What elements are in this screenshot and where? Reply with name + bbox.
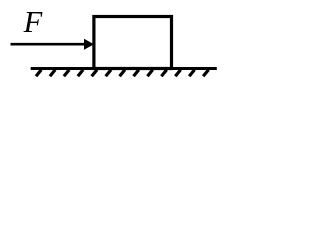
svg-text:F: F [23, 5, 43, 39]
ground [31, 67, 217, 70]
ground hatching [36, 70, 209, 77]
force arrow F [11, 43, 86, 46]
block M [94, 17, 172, 69]
